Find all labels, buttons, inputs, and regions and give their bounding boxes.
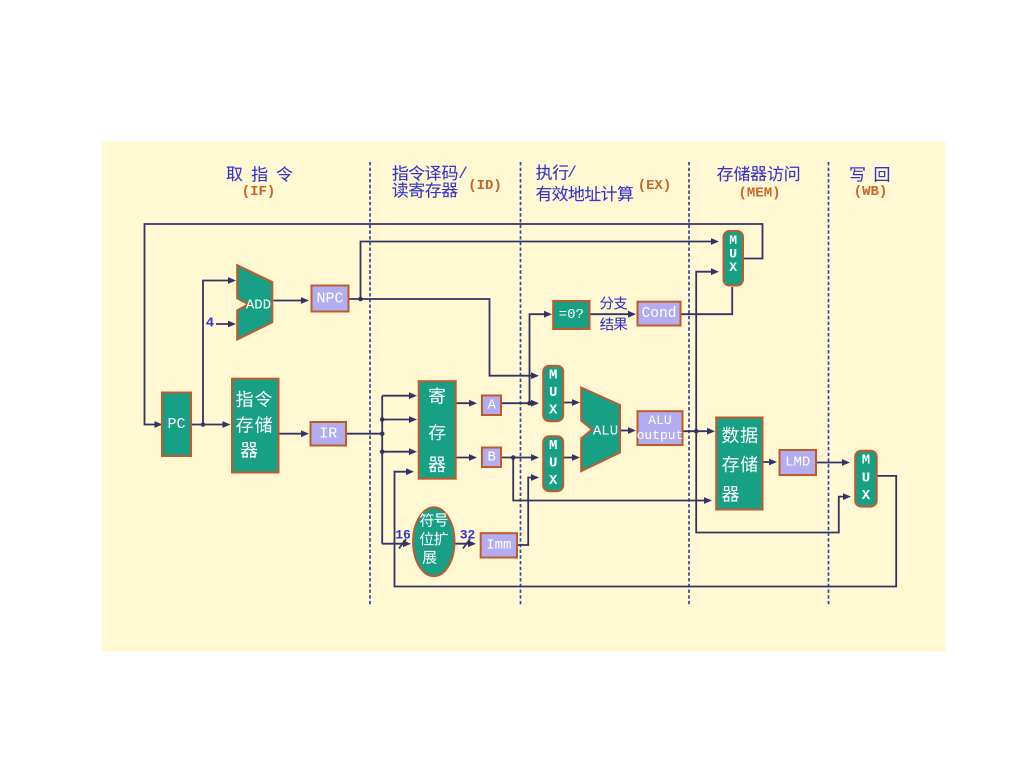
svg-text:=0?: =0? xyxy=(559,307,584,323)
svg-text:M: M xyxy=(549,368,557,384)
svg-text:U: U xyxy=(549,385,557,401)
svg-text:output: output xyxy=(637,428,684,443)
svg-text:U: U xyxy=(862,470,870,486)
svg-text:X: X xyxy=(549,473,558,489)
svg-text:ALU: ALU xyxy=(593,424,618,440)
svg-text:(IF): (IF) xyxy=(242,184,276,200)
svg-text:B: B xyxy=(487,450,495,466)
svg-text:IR: IR xyxy=(319,426,337,443)
svg-text:(EX): (EX) xyxy=(638,178,672,194)
svg-text:A: A xyxy=(487,398,496,414)
svg-text:ALU: ALU xyxy=(648,413,671,428)
svg-text:4: 4 xyxy=(206,316,214,332)
svg-text:M: M xyxy=(549,438,557,454)
svg-text:M: M xyxy=(862,453,870,469)
svg-text:Imm: Imm xyxy=(486,537,511,553)
svg-text:/: / xyxy=(567,164,577,182)
svg-text:16: 16 xyxy=(395,528,411,543)
svg-text:/: / xyxy=(458,165,468,183)
svg-text:X: X xyxy=(862,488,871,504)
svg-text:NPC: NPC xyxy=(316,290,343,307)
svg-text:X: X xyxy=(549,402,558,418)
svg-text:LMD: LMD xyxy=(785,455,810,471)
svg-text:(ID): (ID) xyxy=(468,178,502,194)
svg-text:ADD: ADD xyxy=(246,298,271,314)
svg-text:X: X xyxy=(729,260,737,275)
svg-text:(MEM): (MEM) xyxy=(738,186,780,202)
svg-text:PC: PC xyxy=(167,416,185,433)
svg-text:U: U xyxy=(549,456,557,472)
svg-text:32: 32 xyxy=(460,528,476,543)
svg-text:(WB): (WB) xyxy=(854,184,888,200)
svg-text:Cond: Cond xyxy=(642,306,677,322)
